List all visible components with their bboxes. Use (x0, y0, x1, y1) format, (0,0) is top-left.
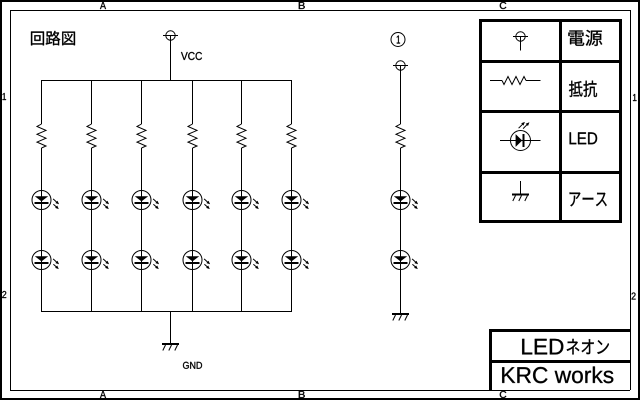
wire branch 4 lower (192, 148, 194, 311)
LED branch 4 lower (183, 251, 210, 270)
LED branch 5 upper (232, 191, 259, 210)
zone label C bottom (500, 391, 507, 398)
zone label 1 left (3, 93, 7, 100)
wire branch 2 lower (91, 148, 93, 311)
legend resistor symbol (490, 77, 541, 85)
title block frame (489, 329, 630, 390)
ground main (162, 343, 179, 351)
LED branch 7 lower (391, 251, 418, 270)
legend ground symbol (512, 181, 529, 201)
power symbol branch 7 (393, 61, 408, 70)
wire top bus (41, 80, 292, 82)
LED branch 5 lower (232, 251, 259, 270)
node 1 (circled) (391, 33, 405, 47)
legend label 抵抗 (569, 81, 597, 97)
resistor branch 3 (137, 124, 146, 148)
legend LED symbol (500, 122, 541, 151)
wire bottom bus (41, 311, 292, 313)
zone label 1 right (633, 94, 637, 101)
resistor branch 5 (237, 124, 246, 148)
LED branch 6 lower (282, 251, 309, 270)
wire branch 1 upper (41, 80, 43, 124)
legend label 電源 (568, 30, 602, 46)
LED branch 1 upper (32, 191, 59, 210)
wire branch 4 upper (192, 80, 194, 124)
wire GND stem (170, 311, 172, 343)
wire branch 7 lower (400, 148, 402, 313)
LED branch 6 upper (282, 191, 309, 210)
wire branch 5 lower (241, 148, 243, 311)
wire branch 7 upper (400, 66, 402, 125)
resistor branch 1 (37, 124, 46, 148)
wire branch 6 upper (291, 80, 293, 124)
power symbol VCC (163, 31, 178, 40)
zone label B bottom (299, 391, 305, 398)
resistor branch 4 (188, 124, 197, 148)
wire branch 3 lower (141, 148, 143, 311)
wire VCC stem (170, 36, 172, 81)
LED branch 3 lower (132, 251, 159, 270)
LED branch 2 lower (82, 251, 109, 270)
resistor branch 2 (87, 124, 96, 148)
legend label LED (570, 132, 598, 144)
wire branch 6 lower (291, 148, 293, 311)
zone label A bottom (100, 391, 106, 398)
LED branch 4 upper (183, 191, 210, 210)
label VCC (181, 52, 202, 60)
ground branch 7 (392, 313, 409, 321)
wire branch 3 upper (141, 80, 143, 124)
zone label C top (500, 2, 507, 9)
legend label アース (570, 192, 607, 206)
LED branch 7 upper (391, 191, 418, 210)
wire branch 1 lower (41, 148, 43, 311)
resistor branch 6 (287, 124, 296, 148)
wire branch 2 upper (91, 80, 93, 124)
resistor branch 7 (396, 124, 405, 148)
legend table grid (479, 19, 622, 223)
LED branch 1 lower (32, 251, 59, 270)
zone label B top (299, 2, 305, 9)
label GND (183, 362, 202, 369)
drawing title 回路図 (31, 31, 75, 46)
title text LED ネオン (522, 339, 609, 355)
zone label A top (100, 2, 106, 9)
title text KRC works (502, 367, 613, 384)
legend power symbol (513, 32, 528, 51)
zone label 2 left (2, 291, 6, 298)
zone label 2 right (632, 293, 636, 300)
wire branch 5 upper (241, 80, 243, 124)
LED branch 2 upper (82, 191, 109, 210)
LED branch 3 upper (132, 191, 159, 210)
